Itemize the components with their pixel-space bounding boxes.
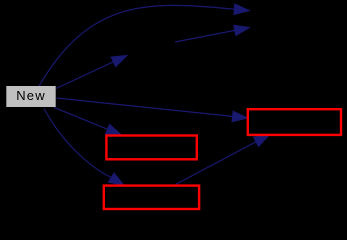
edge: New -> red node B3	[57, 98, 248, 122]
svg-text:New: New	[16, 88, 46, 103]
edge: New -> red node B1	[54, 107, 122, 135]
edge: New -> hidden node A	[56, 56, 127, 89]
red node B3 (truncated, label hidden)	[248, 109, 341, 135]
red node B2 (truncated, label hidden)	[104, 186, 199, 209]
edge: New -> top-right hidden node (long arc)	[39, 4, 249, 86]
red node B1 (truncated, label hidden)	[106, 136, 196, 160]
node New (grey, current node)	[6, 86, 55, 107]
edge: New -> red node B2 (curved)	[44, 109, 124, 186]
edge: hidden node A -> top-right hidden node	[175, 25, 250, 42]
edge: red node B2 -> red node B3	[176, 135, 270, 185]
